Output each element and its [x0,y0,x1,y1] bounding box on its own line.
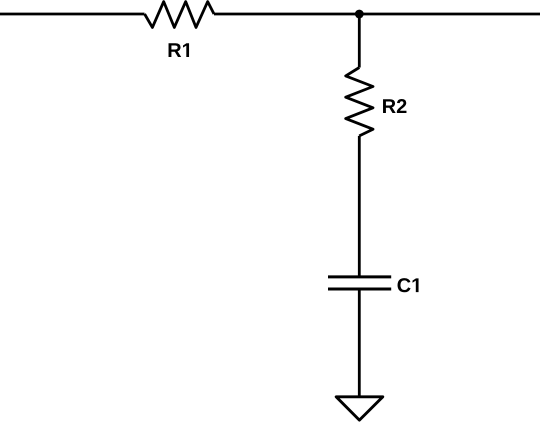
ground [336,397,383,420]
wire: top horizontal right segment [214,13,540,16]
label C1 [398,278,419,292]
capacitor C1 bottom plate [328,288,391,291]
wire: R2 to C1 [358,136,361,277]
resistor R1 [145,2,214,28]
resistor R2 [346,68,373,136]
node junction dot [355,10,364,19]
wire: C1 to ground [358,289,361,397]
wire: node to R2 [358,14,361,68]
capacitor C1 top plate [328,275,391,278]
label R1 [169,43,190,57]
label R2 [383,99,406,113]
wire: top horizontal left segment [0,13,145,16]
